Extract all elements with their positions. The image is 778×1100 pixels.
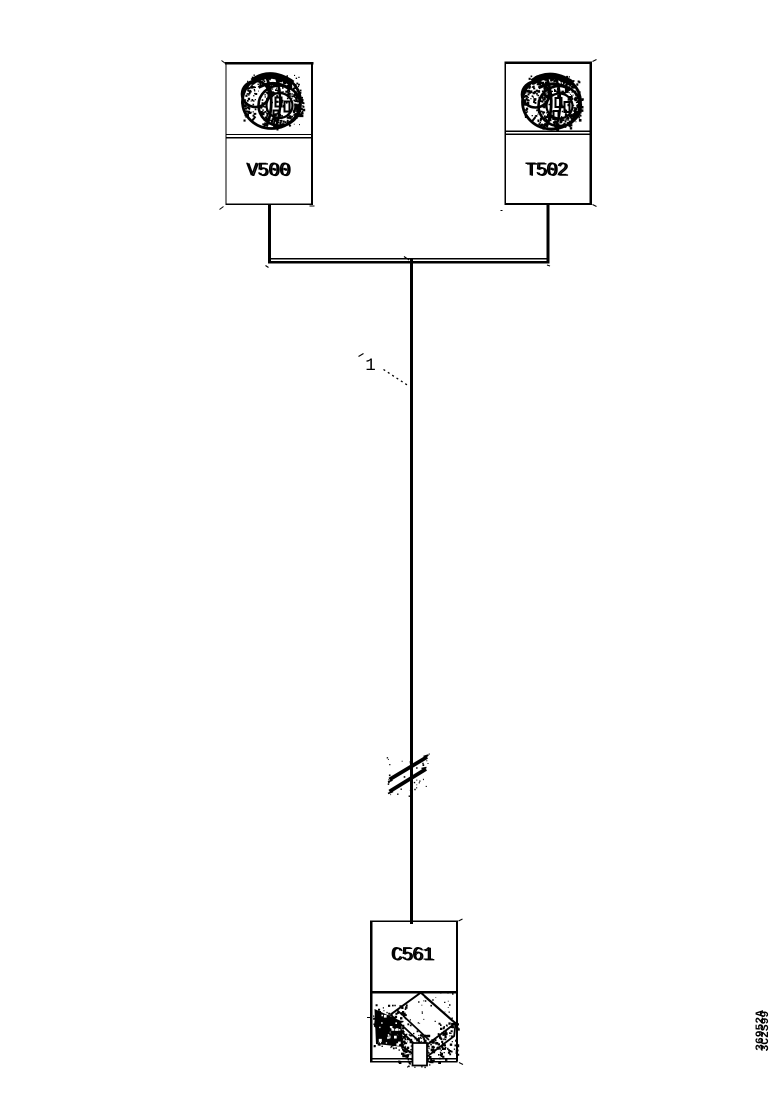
bus wire thick lower line xyxy=(268,261,550,264)
connector icon T502 xyxy=(522,74,584,131)
connector icon C561 xyxy=(373,991,460,1068)
corner tick marks V500 xyxy=(220,61,315,210)
wire from T502 down xyxy=(547,205,550,261)
connector box V500 xyxy=(225,62,313,205)
corner tick marks C561 xyxy=(367,919,463,1065)
connector icon V500 xyxy=(241,74,305,131)
leader line from label 1 to wire xyxy=(384,370,410,387)
main vertical wire to C561 xyxy=(410,259,413,924)
label C561 xyxy=(392,947,435,961)
bus wire thin upper line xyxy=(268,258,549,259)
vertical sheet number text xyxy=(760,1011,768,1050)
label V500 xyxy=(246,163,291,177)
wire from V500 down xyxy=(268,205,271,261)
wire break symbol xyxy=(387,754,430,797)
connector box C561 xyxy=(370,921,458,1063)
label T502 xyxy=(525,162,568,176)
label 1 xyxy=(367,358,375,370)
connector box T502 xyxy=(504,62,592,206)
junction node ticks xyxy=(266,257,551,268)
stray mark near label 1 xyxy=(359,354,364,357)
corner tick marks T502 xyxy=(501,60,597,211)
